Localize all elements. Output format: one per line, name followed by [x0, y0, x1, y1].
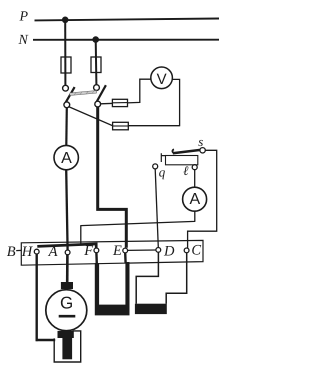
generator underline — [59, 315, 76, 318]
wire H down to generator loop — [36, 254, 38, 341]
svg-text:N: N — [18, 33, 29, 48]
wire ammeter A2 down and across to F bracket — [81, 211, 195, 245]
field switch base box — [166, 156, 198, 165]
wire P rail — [35, 19, 220, 21]
fuse F3 (voltmeter fuse upper) — [112, 99, 127, 106]
generator top brush — [61, 282, 73, 289]
node junction dot on N — [92, 36, 99, 43]
wire drop from P through left fuse — [64, 20, 66, 85]
wire D down with step to vessel 2 — [136, 252, 158, 303]
wire terminal A down to generator brush — [66, 255, 69, 283]
svg-text:G: G — [60, 294, 73, 313]
wire C down with step to vessel 2 — [166, 253, 187, 304]
main switch right blade — [97, 85, 106, 101]
main switch left hinge — [64, 102, 70, 108]
fuse F2 (right main fuse) — [91, 57, 101, 73]
resistance vessel 2 (D-C load) — [135, 304, 167, 314]
wire E-D jumper — [128, 249, 156, 251]
wire F down to resistance vessel — [95, 253, 98, 264]
field switch contact l — [192, 165, 197, 170]
wire thick H-to-F bar — [37, 244, 96, 248]
wire voltmeter lower branch diagonal — [68, 107, 179, 126]
svg-text:s: s — [198, 134, 203, 149]
field switch blade with hook — [172, 149, 176, 153]
terminal A circle — [65, 250, 70, 255]
terminal board — [21, 240, 203, 265]
generator bottom lead (solid bar) — [62, 336, 72, 359]
svg-text:V: V — [157, 71, 167, 88]
svg-text:A: A — [61, 150, 72, 167]
field switch rest post — [161, 153, 165, 162]
wire N rail — [33, 39, 219, 41]
terminal D circle — [156, 248, 161, 253]
wire ammeter to terminal A — [66, 170, 67, 250]
svg-text:E: E — [112, 243, 122, 259]
field switch contact q — [153, 164, 158, 169]
wire left pole down to ammeter — [65, 108, 68, 146]
fuse F4 (voltmeter fuse lower) — [113, 122, 129, 130]
wire drop from N through right fuse — [95, 40, 98, 85]
main switch left fixed contact — [63, 85, 69, 91]
svg-text:C: C — [191, 243, 201, 259]
voltmeter V — [151, 67, 173, 89]
field switch contact s — [200, 148, 205, 153]
svg-text:D: D — [163, 243, 175, 259]
svg-text:B: B — [7, 244, 16, 260]
wire l to ammeter A2 — [194, 170, 196, 188]
terminal E circle — [123, 248, 128, 253]
main switch right hinge — [95, 101, 101, 107]
svg-text:ℓ: ℓ — [183, 163, 189, 178]
wire voltmeter right side down — [172, 79, 179, 126]
resistance vessel 1 (F-E load) — [95, 262, 130, 315]
generator bottom trough outline — [54, 331, 80, 362]
generator G — [46, 290, 87, 331]
fuse F1 (left main fuse) — [61, 57, 71, 73]
svg-text:q: q — [159, 164, 166, 179]
main switch right fixed contact — [94, 85, 100, 91]
wire thick armature lead from right pole to terminal E — [98, 107, 127, 248]
ammeter A2 (field ammeter) — [183, 187, 207, 211]
node junction dot on P — [62, 17, 69, 24]
main switch insulating link (hatched bar) — [70, 91, 97, 96]
svg-text:P: P — [19, 10, 29, 25]
svg-text:H: H — [21, 244, 34, 260]
svg-text:A: A — [189, 191, 200, 208]
generator bottom brush — [58, 331, 74, 338]
ammeter A1 (armature/line ammeter) — [54, 145, 78, 169]
terminal H circle — [34, 249, 39, 254]
wire s to C — [188, 150, 217, 248]
wire q down to terminal D — [155, 169, 158, 248]
wire voltmeter top branch with corner — [101, 79, 151, 104]
wire E down to resistance vessel — [124, 253, 127, 263]
terminal F circle — [94, 248, 99, 253]
terminal C circle — [184, 248, 189, 253]
main switch left blade — [66, 87, 75, 103]
